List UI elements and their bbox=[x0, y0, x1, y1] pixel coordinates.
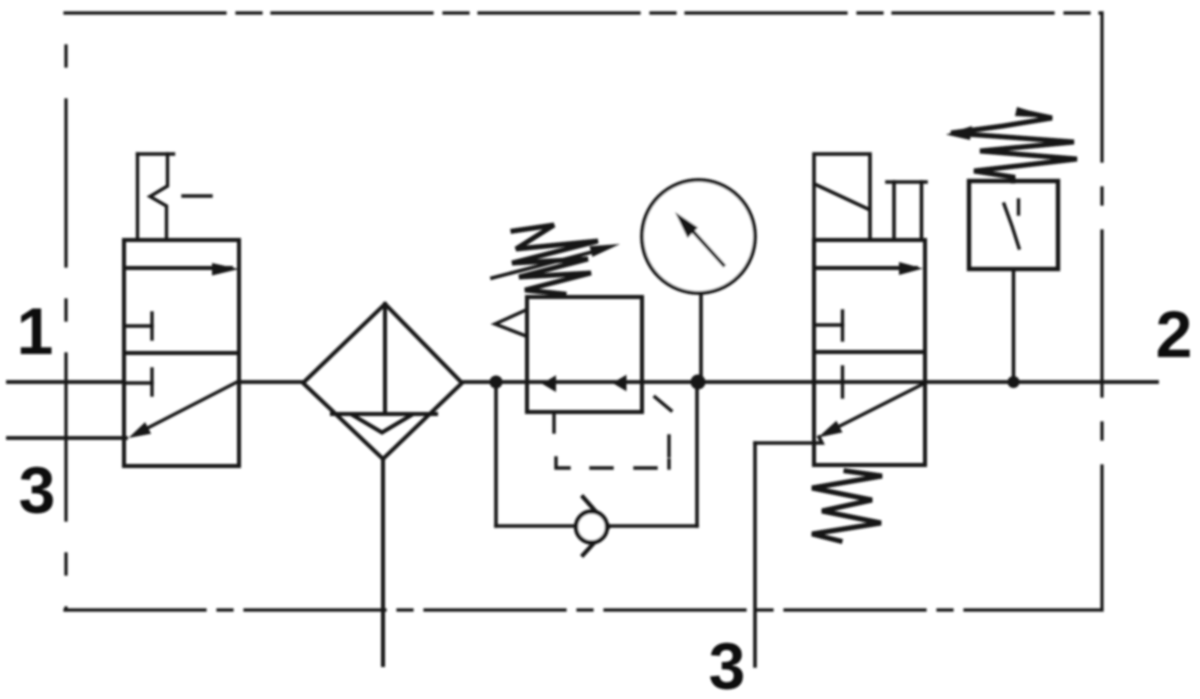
svg-text:2: 2 bbox=[1156, 297, 1193, 371]
svg-text:3: 3 bbox=[709, 629, 746, 699]
svg-text:3: 3 bbox=[19, 453, 56, 527]
svg-text:1: 1 bbox=[17, 294, 54, 368]
